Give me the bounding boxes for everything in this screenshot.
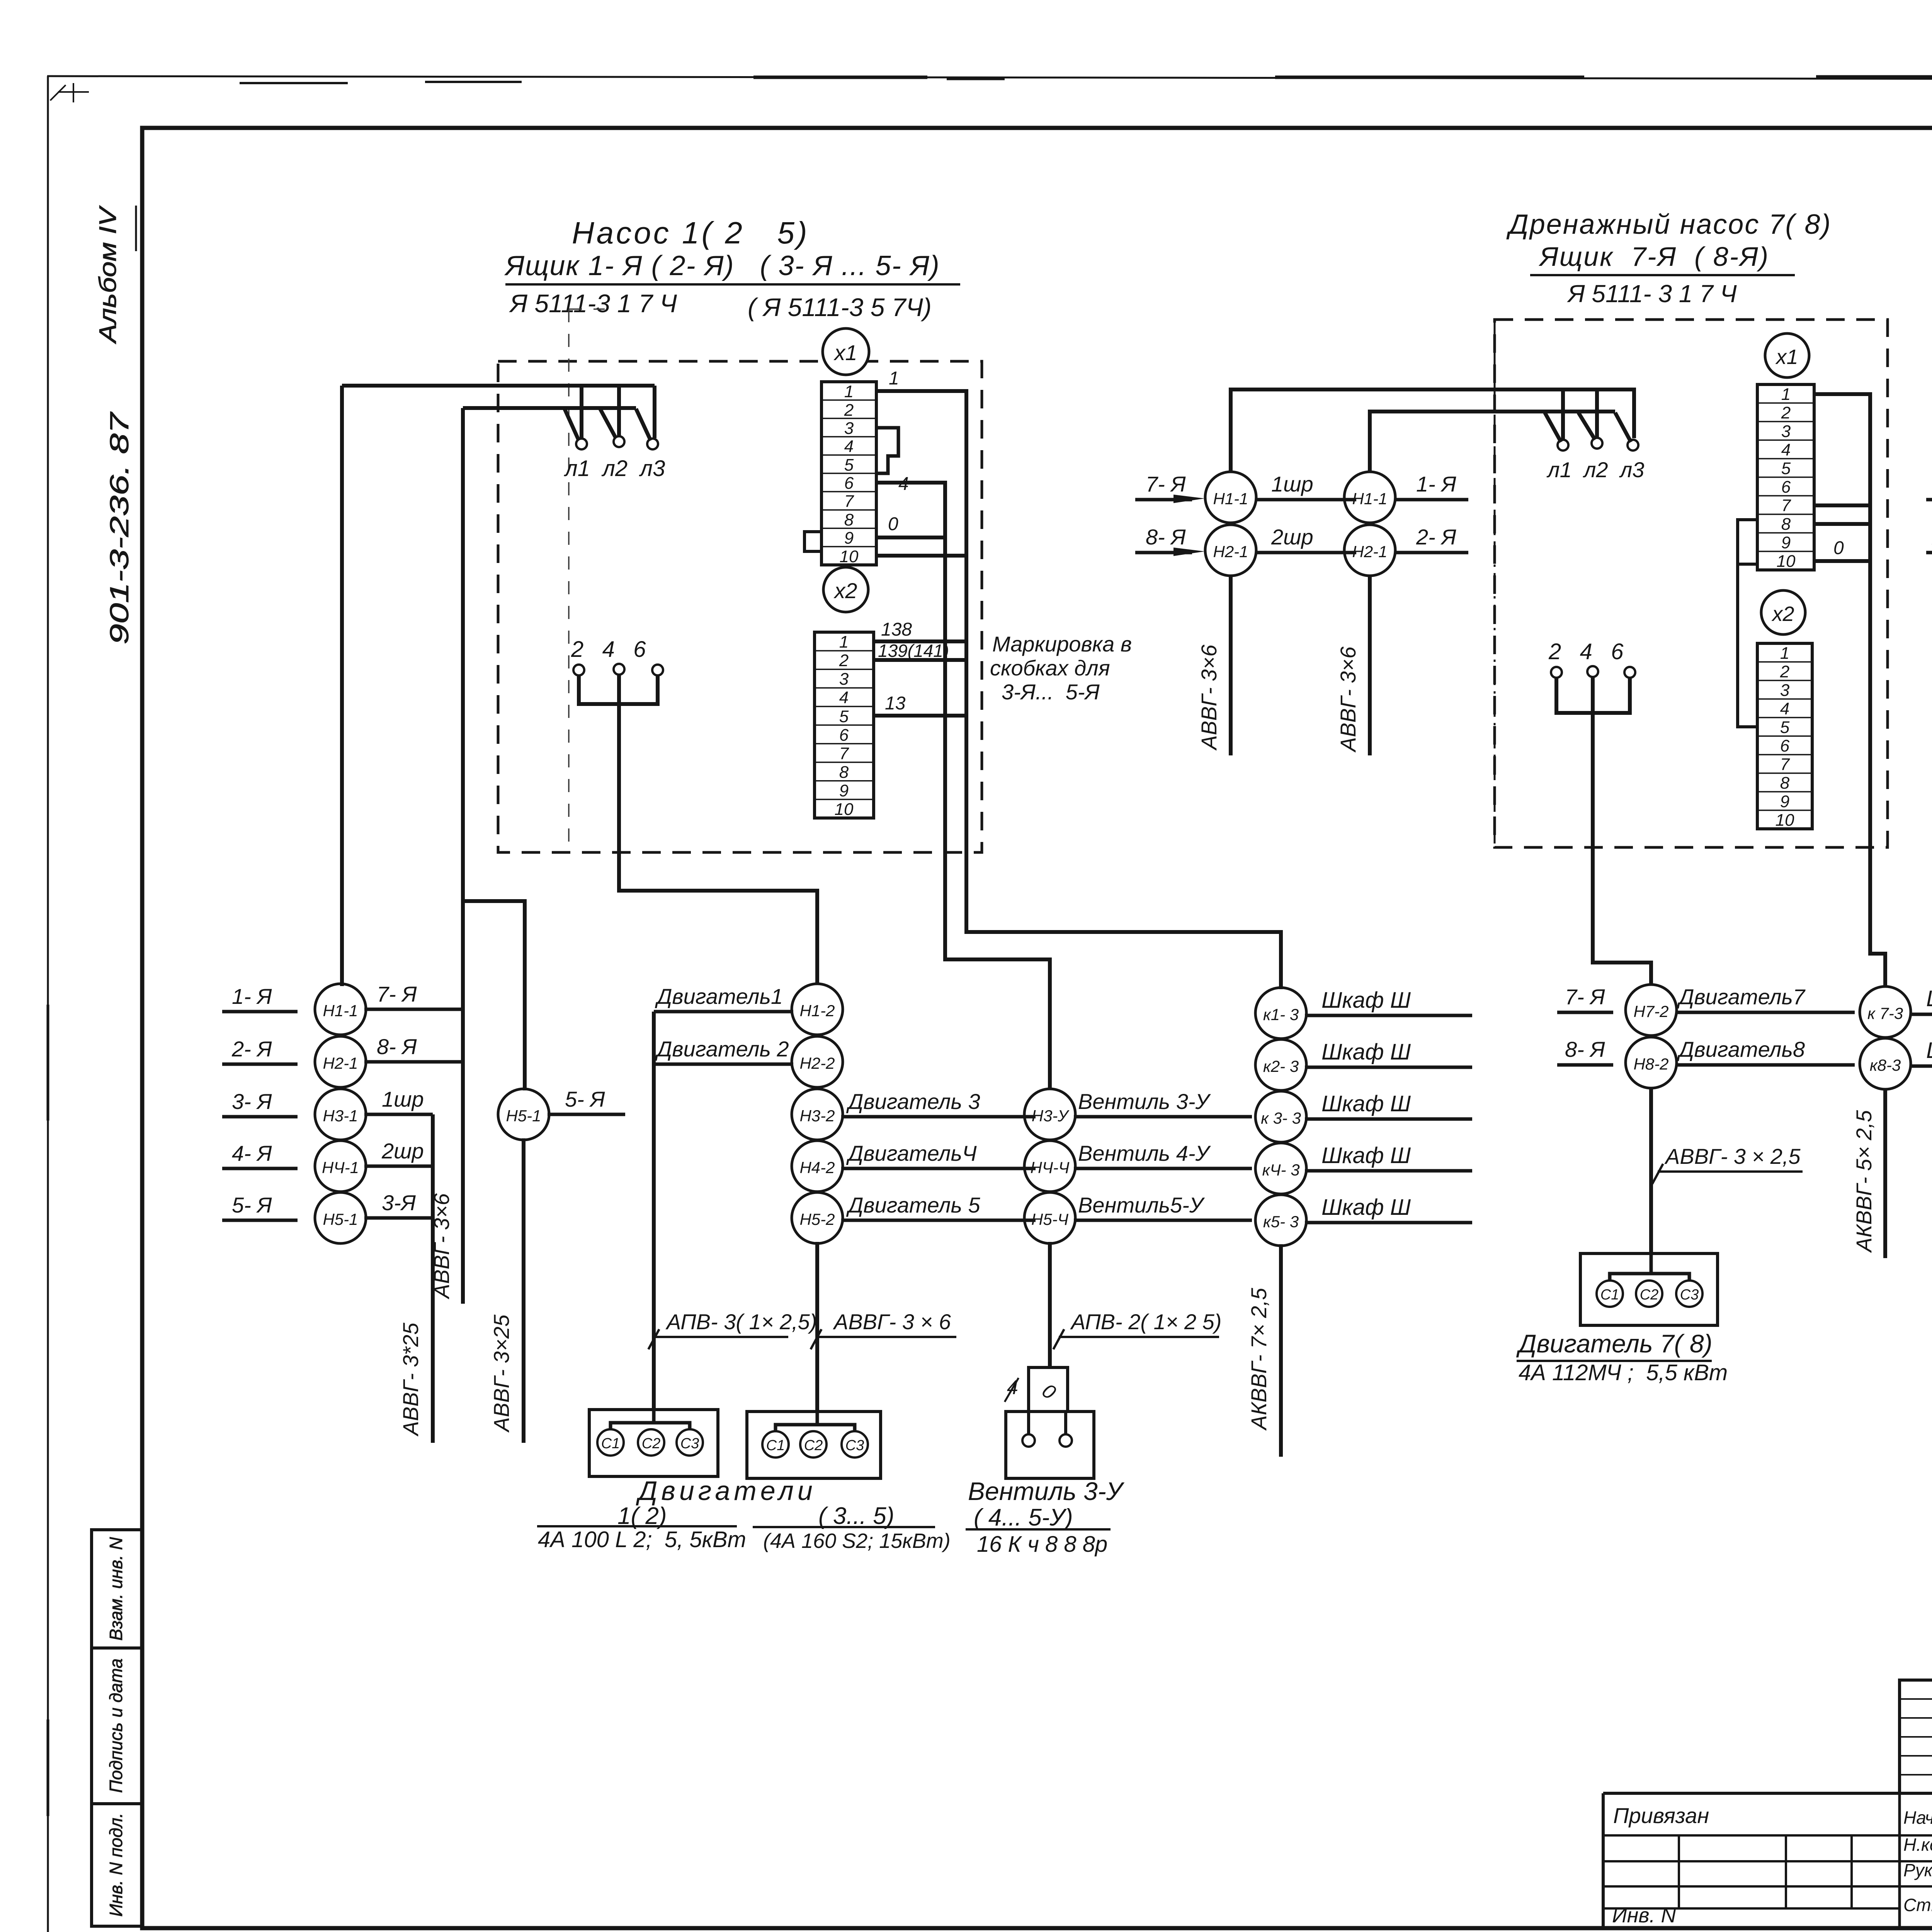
wire Двигатель 2 — [654, 1063, 793, 1066]
svg-text:Привязан: Привязан — [1613, 1803, 1709, 1828]
svg-text:Двигатель8: Двигатель8 — [1677, 1037, 1805, 1061]
svg-text:С3: С3 — [680, 1435, 699, 1452]
motor1 terminal С1 — [597, 1429, 624, 1456]
motor1 terminal С3 — [677, 1429, 703, 1456]
svg-text:x2: x2 — [833, 578, 857, 603]
svg-text:7: 7 — [1780, 755, 1790, 774]
svg-text:Альбом IV: Альбом IV — [95, 205, 121, 344]
svg-text:Дренажный насос 7( 8): Дренажный насос 7( 8) — [1506, 209, 1832, 240]
svg-text:Н5-1: Н5-1 — [506, 1107, 541, 1125]
svg-text:7- Я: 7- Я — [1565, 985, 1605, 1009]
terminal 6 — [652, 665, 663, 675]
svg-text:(4А 160 S2; 15кВт): (4А 160 S2; 15кВт) — [763, 1529, 951, 1553]
cable run АВВГ-3x6 below second Н2-1 — [1368, 575, 1372, 755]
motor1 terminal С2 — [638, 1429, 664, 1456]
svg-text:8- Я: 8- Я — [1146, 525, 1186, 549]
terminal block X2 — [1757, 643, 1812, 829]
wire motor7 drop — [1649, 1087, 1653, 1253]
marker Н5-2 — [792, 1192, 843, 1243]
terminal block X2 circle label — [1761, 590, 1805, 634]
bus wire 1 (top feed) — [342, 384, 655, 388]
svg-text:8: 8 — [839, 763, 849, 782]
svg-text:Н3-У: Н3-У — [1032, 1107, 1070, 1125]
svg-text:0: 0 — [888, 514, 898, 534]
wire Н2-1 right 8-Я — [364, 1060, 463, 1064]
stub 4-Я — [222, 1167, 298, 1170]
svg-text:2шр: 2шр — [381, 1139, 424, 1163]
diagonal feed L3 — [636, 409, 651, 440]
wire X1 row6 out — [876, 483, 1050, 1090]
marker к7-3 — [1860, 986, 1911, 1037]
svg-text:АПВ- 2( 1× 2 5): АПВ- 2( 1× 2 5) — [1070, 1310, 1221, 1334]
svg-text:АВВГ- 3 × 6: АВВГ- 3 × 6 — [833, 1310, 951, 1334]
bus wire 1 to л terminals — [1231, 389, 1634, 473]
lower-left grid — [1603, 1835, 1900, 1908]
svg-text:НЧ-Ч: НЧ-Ч — [1031, 1158, 1070, 1177]
wire 1-Я — [1395, 498, 1468, 502]
svg-text:1: 1 — [844, 382, 854, 401]
svg-text:2: 2 — [1781, 403, 1791, 422]
stub 3-Я — [222, 1115, 298, 1119]
svg-text:4: 4 — [1780, 699, 1789, 718]
svg-text:Шкаф Ш: Шкаф Ш — [1926, 1038, 1932, 1063]
wire Шкаф Ш k2 — [1305, 1066, 1472, 1069]
svg-text:Н3-1: Н3-1 — [323, 1107, 358, 1125]
svg-text:0: 0 — [1833, 538, 1844, 558]
svg-text:Ящик 7-Я ( 8-Я): Ящик 7-Я ( 8-Я) — [1538, 241, 1769, 272]
wire 2шр — [1255, 551, 1356, 554]
svg-text:Н1-1: Н1-1 — [1352, 490, 1387, 508]
svg-text:4: 4 — [844, 437, 854, 456]
diagonal feed L3 — [1615, 413, 1631, 442]
svg-text:5: 5 — [1780, 718, 1790, 737]
svg-text:к 3- 3: к 3- 3 — [1261, 1109, 1301, 1127]
marker Н2-1 — [315, 1036, 366, 1087]
wire Шкаф Ш k4 — [1305, 1169, 1472, 1173]
stub 7-Я with arrow — [1135, 498, 1192, 502]
marker Н3-1 — [315, 1089, 366, 1140]
svg-text:Двигатель1: Двигатель1 — [655, 984, 783, 1009]
motor2 link bracket — [776, 1412, 855, 1431]
svg-text:к1- 3: к1- 3 — [1263, 1005, 1299, 1024]
terminal л1 — [576, 439, 587, 449]
marker Н4-2 — [792, 1141, 843, 1192]
diagonal feed L1 — [565, 409, 579, 440]
marker Н2-2 — [792, 1036, 843, 1087]
X1 left clamp rows 8-10 — [1738, 520, 1757, 564]
svg-text:Шкаф Ш: Шкаф Ш — [1321, 988, 1411, 1013]
wire X1 row1 out — [876, 391, 1281, 989]
svg-text:Н1-2: Н1-2 — [799, 1002, 835, 1020]
svg-text:Инв. N: Инв. N — [1612, 1904, 1677, 1927]
marker к5-3 — [1255, 1195, 1306, 1246]
wire X1 row10 out — [1814, 559, 1870, 563]
svg-text:1- Я: 1- Я — [1416, 472, 1456, 496]
svg-text:( 4... 5-У): ( 4... 5-У) — [974, 1504, 1073, 1531]
svg-text:к8-3: к8-3 — [1870, 1056, 1901, 1074]
svg-text:С3: С3 — [845, 1437, 864, 1454]
wire Двигатель7 — [1676, 1011, 1855, 1014]
svg-text:Двигатель 5: Двигатель 5 — [846, 1193, 980, 1217]
svg-text:139(141): 139(141) — [878, 641, 949, 661]
svg-text:2- Я: 2- Я — [231, 1037, 272, 1061]
svg-text:7: 7 — [839, 744, 849, 763]
svg-text:( Я 5111-3 5 7Ч): ( Я 5111-3 5 7Ч) — [748, 293, 932, 321]
svg-text:Н4-2: Н4-2 — [799, 1158, 835, 1177]
wire Вентиль 5-У — [1074, 1219, 1252, 1222]
svg-text:С3: С3 — [1680, 1287, 1699, 1303]
motor7 terminal С2 — [1636, 1281, 1662, 1307]
svg-text:13: 13 — [885, 693, 906, 714]
stamp box: Подпись и дата — [92, 1648, 142, 1804]
svg-text:x2: x2 — [1771, 602, 1794, 626]
svg-text:8- Я: 8- Я — [377, 1034, 417, 1059]
stamp box: Взам. инв. N — [92, 1530, 142, 1648]
motor7 terminal С1 — [1597, 1281, 1623, 1307]
wire X2 row1 out — [874, 639, 966, 643]
svg-text:10: 10 — [1777, 552, 1796, 571]
marker к3-3 — [1255, 1091, 1306, 1142]
svg-text:1: 1 — [1781, 385, 1791, 404]
revision grid (upper-left of title block) — [1900, 1680, 1932, 1793]
wire Н5-1 right 3-Я — [364, 1216, 433, 1220]
svg-text:Ящик 1- Я ( 2- Я) ( 3- Я ...: Ящик 1- Я ( 2- Я) ( 3- Я ... 5- Я) — [504, 250, 940, 281]
valve contact left — [1022, 1434, 1035, 1447]
svg-text:2- Я: 2- Я — [1416, 525, 1456, 549]
svg-text:7- Я: 7- Я — [377, 982, 417, 1006]
svg-text:С2: С2 — [642, 1435, 661, 1452]
svg-text:4А 100 L 2; 5, 5кВт: 4А 100 L 2; 5, 5кВт — [538, 1527, 746, 1552]
svg-text:x1: x1 — [1775, 345, 1798, 369]
svg-text:1: 1 — [889, 368, 899, 389]
stub 8-Я with arrow — [1135, 551, 1192, 554]
marker Н5-1 (box 5-Я feed) — [498, 1089, 549, 1140]
svg-text:4А 112МЧ ; 5,5 кВт: 4А 112МЧ ; 5,5 кВт — [1519, 1360, 1728, 1385]
svg-text:Я 5111-3 1 7 Ч: Я 5111-3 1 7 Ч — [509, 289, 677, 318]
wire drop L3 (corner) — [653, 386, 656, 438]
svg-text:АВВГ- 3 × 2,5: АВВГ- 3 × 2,5 — [1664, 1144, 1801, 1168]
signature table columns — [1900, 1793, 1932, 1929]
terminal 2 — [573, 665, 584, 675]
svg-text:АВВГ- 3×25: АВВГ- 3×25 — [489, 1314, 514, 1433]
wire 4 to Н7-2 — [1593, 713, 1651, 985]
svg-text:4: 4 — [839, 688, 849, 707]
svg-text:4: 4 — [898, 474, 909, 494]
wire drop L2 — [1595, 389, 1599, 437]
svg-text:138: 138 — [881, 619, 912, 640]
svg-text:АВВГ- 3*25: АВВГ- 3*25 — [398, 1322, 423, 1437]
terminal л3 — [1628, 440, 1638, 451]
marker к2-3 — [1255, 1039, 1306, 1090]
svg-text:Вентиль 3-У: Вентиль 3-У — [1078, 1089, 1211, 1114]
svg-text:Вентиль5-У: Вентиль5-У — [1078, 1193, 1205, 1217]
svg-text:8- Я: 8- Я — [1565, 1037, 1605, 1061]
wire clamp to X2 row5 — [1738, 564, 1757, 727]
marker к1-3 — [1255, 988, 1306, 1039]
svg-text:Н5-Ч: Н5-Ч — [1031, 1210, 1069, 1228]
svg-text:Шкаф Ш: Шкаф Ш — [1321, 1091, 1411, 1116]
svg-text:Ст.инж.: Ст.инж. — [1903, 1895, 1932, 1915]
marker Н5-1 — [315, 1192, 366, 1243]
marker Н3-У — [1024, 1089, 1075, 1140]
svg-text:( 3... 5): ( 3... 5) — [818, 1503, 894, 1529]
outer border top — [47, 76, 1932, 80]
stamp box: Инв. N подл. — [92, 1804, 142, 1926]
svg-text:Вентиль 4-У: Вентиль 4-У — [1078, 1141, 1211, 1165]
wire Н1-1 right 7-Я — [364, 1008, 463, 1011]
svg-text:АВВГ- 3×6: АВВГ- 3×6 — [429, 1193, 454, 1299]
connector U 2-4-6 — [1556, 677, 1630, 713]
wire Двигатель 5 — [841, 1219, 1036, 1222]
svg-text:Н2-1: Н2-1 — [323, 1054, 358, 1072]
terminal block X1 circle label — [1765, 333, 1809, 378]
marker Н7-2 — [1626, 985, 1677, 1036]
wire jog to Н5-1 — [463, 901, 525, 1090]
wire drop L1 — [580, 386, 583, 438]
svg-text:Я 5111- 3 1 7 Ч: Я 5111- 3 1 7 Ч — [1567, 280, 1737, 308]
motor1 link bracket — [611, 1410, 690, 1429]
svg-text:к 7-3: к 7-3 — [1867, 1004, 1903, 1022]
terminal л1 — [1558, 440, 1568, 451]
marker Н1-1 (cable 1шр) — [1205, 472, 1256, 523]
svg-text:9: 9 — [839, 781, 849, 800]
svg-text:АПВ- 3( 1× 2,5): АПВ- 3( 1× 2,5) — [665, 1310, 817, 1334]
wire Вентиль 4-У — [1074, 1167, 1252, 1170]
svg-text:Н5-1: Н5-1 — [323, 1210, 358, 1228]
wire valve drop — [1048, 1242, 1052, 1367]
svg-text:3- Я: 3- Я — [232, 1089, 272, 1114]
terminal 6 — [1624, 667, 1635, 678]
svg-text:1- Я: 1- Я — [232, 984, 272, 1009]
svg-text:С1: С1 — [1600, 1287, 1619, 1303]
svg-text:1: 1 — [839, 633, 849, 651]
wire Шкаф Ш k5 — [1305, 1221, 1472, 1225]
stub 1-Я — [222, 1010, 298, 1014]
svg-text:6: 6 — [1781, 478, 1791, 497]
wire 2-Я — [1395, 551, 1468, 554]
svg-text:7- Я: 7- Я — [1146, 472, 1186, 496]
svg-text:Н5-2: Н5-2 — [799, 1210, 835, 1228]
svg-text:Шкаф Ш: Шкаф Ш — [1321, 1039, 1411, 1065]
wire Шкаф Ш k3 — [1305, 1117, 1472, 1121]
svg-text:16 К ч 8 8 8р: 16 К ч 8 8 8р — [977, 1532, 1107, 1557]
wire X1 row10 out — [876, 554, 966, 558]
svg-text:Н1-1: Н1-1 — [323, 1002, 358, 1020]
svg-text:901-3-236. 87: 901-3-236. 87 — [105, 412, 134, 645]
terminal block X1 — [1757, 384, 1814, 570]
motor box 7 — [1580, 1253, 1718, 1325]
marker Н4-У — [1024, 1141, 1075, 1192]
wire Двигатель 4 — [841, 1167, 1036, 1170]
svg-text:Шкаф Ш: Шкаф Ш — [1321, 1195, 1411, 1220]
motor2 terminal С1 — [762, 1431, 789, 1458]
svg-text:Н3-2: Н3-2 — [799, 1107, 835, 1125]
svg-text:Вентиль 3-У: Вентиль 3-У — [968, 1477, 1125, 1505]
border smudges — [753, 77, 1932, 78]
svg-text:8: 8 — [1781, 515, 1791, 534]
cable run АВВГ-3x6 below Н2-1 — [1229, 575, 1233, 755]
svg-text:10: 10 — [835, 800, 854, 819]
stub 5-Я — [222, 1219, 298, 1222]
svg-text:С2: С2 — [1640, 1287, 1659, 1303]
marker Н5-У — [1024, 1192, 1075, 1243]
marker Н2-1 (cable 2шр) — [1205, 525, 1256, 576]
svg-text:10: 10 — [1776, 811, 1794, 830]
svg-text:к5- 3: к5- 3 — [1263, 1213, 1299, 1231]
svg-text:Инв. N подл.: Инв. N подл. — [106, 1813, 126, 1917]
svg-text:Двигатель7: Двигатель7 — [1677, 985, 1806, 1009]
terminal л2 — [1592, 438, 1602, 449]
svg-text:8: 8 — [844, 510, 854, 529]
wire Н5-1 right 5-Я — [548, 1113, 625, 1116]
svg-text:5: 5 — [839, 707, 849, 726]
svg-text:Двигатель 3: Двигатель 3 — [846, 1089, 980, 1114]
X1 rows3-5 jumper bracket — [876, 428, 898, 473]
wire drop L2 — [617, 386, 621, 436]
svg-text:Подпись и дата: Подпись и дата — [106, 1658, 126, 1793]
svg-text:5- Я: 5- Я — [232, 1193, 272, 1217]
svg-text:Нач. отд.: Нач. отд. — [1903, 1808, 1932, 1828]
svg-text:Шкаф Ш: Шкаф Ш — [1926, 986, 1932, 1011]
svg-text:9: 9 — [1780, 792, 1789, 811]
diagonal feed L2 — [600, 409, 616, 438]
svg-text:6: 6 — [839, 726, 849, 745]
connector U 2-4-6 — [579, 675, 658, 704]
wire Двигатель 3 — [841, 1115, 1036, 1119]
svg-text:10: 10 — [840, 547, 859, 566]
motor box 2 — [747, 1412, 881, 1478]
terminal 4 — [614, 664, 624, 675]
svg-text:Рук. бр: Рук. бр — [1903, 1860, 1932, 1880]
wire 1шр — [1255, 498, 1356, 502]
wire Вентиль 3-У — [1074, 1115, 1252, 1119]
svg-text:7: 7 — [844, 492, 854, 511]
marker Н3-2 — [792, 1089, 843, 1140]
bus wire 2 (second feed) — [463, 406, 636, 410]
svg-text:6: 6 — [1780, 736, 1790, 755]
underline — [1530, 274, 1795, 276]
svg-text:к2- 3: к2- 3 — [1263, 1057, 1299, 1075]
svg-text:3: 3 — [1780, 681, 1790, 700]
stub 12-Я with arrow — [1926, 498, 1932, 502]
svg-text:2 4 6: 2 4 6 — [571, 637, 646, 662]
svg-text:2: 2 — [1780, 662, 1789, 681]
wire Шкаф Ш k8 — [1911, 1065, 1932, 1068]
svg-text:С2: С2 — [804, 1437, 823, 1454]
dashed enclosure box ящик 7-Я — [1495, 320, 1888, 847]
wire Двигатель8 — [1676, 1063, 1855, 1067]
svg-text:АВВГ- 3×6: АВВГ- 3×6 — [1336, 646, 1360, 753]
svg-text:9: 9 — [844, 529, 854, 548]
svg-text:9: 9 — [1781, 533, 1791, 552]
wire 4 to motor column — [619, 704, 817, 985]
svg-text:Н7-2: Н7-2 — [1633, 1002, 1668, 1020]
svg-text:Шкаф Ш: Шкаф Ш — [1321, 1143, 1411, 1168]
wire Шкаф Ш k1 — [1305, 1014, 1472, 1017]
marker Н8-2 — [1626, 1037, 1677, 1088]
wire X1 row8 out — [1814, 522, 1870, 526]
svg-text:8: 8 — [1780, 774, 1790, 793]
outer border left — [47, 76, 49, 1932]
svg-text:Маркировка в: Маркировка в — [992, 632, 1132, 656]
svg-text:1шр: 1шр — [382, 1087, 424, 1111]
wire X1 row7 out — [1814, 503, 1870, 507]
cable run АВВГ-3x25 (right) — [522, 1138, 526, 1443]
valve contact right — [1060, 1434, 1072, 1447]
svg-text:Н8-2: Н8-2 — [1633, 1055, 1668, 1073]
stub 8-Я — [1557, 1063, 1613, 1067]
svg-text:кЧ- 3: кЧ- 3 — [1262, 1161, 1299, 1179]
wire Двигатель1 — [654, 1010, 793, 1014]
svg-text:7: 7 — [1781, 496, 1791, 515]
svg-text:Н2-2: Н2-2 — [799, 1054, 835, 1072]
svg-text:Н1-1: Н1-1 — [1213, 490, 1248, 508]
underline — [505, 283, 960, 286]
marker Н1-1 — [315, 984, 366, 1035]
stub 2-Я — [222, 1063, 298, 1066]
svg-text:С1: С1 — [766, 1437, 785, 1454]
bus wire 2 to л terminals — [1370, 412, 1615, 473]
svg-text:5- Я: 5- Я — [565, 1087, 605, 1111]
terminal block X2 — [815, 632, 874, 818]
terminal block X2 circle label — [823, 567, 868, 612]
terminal 4 — [1587, 666, 1598, 677]
wire X2 row2 out — [874, 658, 966, 662]
stub 22-Я with arrow — [1926, 551, 1932, 554]
cable run АКВВГ-5x2,5 — [1883, 1089, 1887, 1258]
svg-text:3: 3 — [839, 670, 849, 689]
motor2 terminal С2 — [800, 1431, 827, 1458]
wire Н4-1 right 2шр — [364, 1165, 433, 1168]
svg-text:Двигатель 2: Двигатель 2 — [655, 1037, 789, 1061]
svg-text:ДвигательЧ: ДвигательЧ — [846, 1141, 977, 1165]
terminal block X1 — [821, 382, 876, 565]
motor7 terminal С3 — [1676, 1281, 1702, 1307]
svg-text:Двигатели: Двигатели — [636, 1476, 816, 1506]
svg-text:АВВГ- 3×6: АВВГ- 3×6 — [1197, 644, 1221, 751]
svg-text:Взам. инв. N: Взам. инв. N — [106, 1537, 126, 1641]
svg-text:4: 4 — [1781, 440, 1791, 459]
svg-text:1: 1 — [1780, 644, 1789, 663]
svg-text:2 4 6: 2 4 6 — [1548, 639, 1624, 664]
wire X2 row5 out — [874, 714, 966, 718]
motor2 terminal С3 — [842, 1431, 868, 1458]
marker к8-3 — [1860, 1038, 1911, 1089]
valve coil box — [1029, 1367, 1068, 1412]
svg-text:Двигатель 7( 8): Двигатель 7( 8) — [1516, 1329, 1713, 1358]
svg-text:2: 2 — [839, 651, 849, 670]
terminal л2 — [614, 436, 624, 447]
wire X1 row9 out — [876, 536, 945, 539]
wire Н3-1 right 1шр — [364, 1113, 433, 1116]
dashed enclosure box ящик 1-Я — [498, 361, 982, 852]
corner mark top-left — [50, 83, 89, 102]
svg-text:3: 3 — [1781, 422, 1791, 441]
terminal block X1 circle label — [823, 328, 869, 375]
svg-text:л1 л2 л3: л1 л2 л3 — [1546, 457, 1644, 482]
wire drop L1 — [1561, 389, 1565, 440]
wire X1 row1 out — [1814, 394, 1885, 986]
wire bus2 drop / cable АВВГ-3x6 run — [461, 408, 465, 1304]
marker Н1-2 — [792, 984, 843, 1035]
wire motor2 drop — [815, 1242, 819, 1412]
svg-text:5: 5 — [1781, 459, 1791, 478]
svg-text:Н2-1: Н2-1 — [1213, 543, 1248, 561]
marker к4-3 — [1255, 1143, 1306, 1194]
X1 left clamp rows 9-10 — [804, 532, 821, 551]
svg-text:АКВВГ- 5× 2,5: АКВВГ- 5× 2,5 — [1852, 1110, 1876, 1253]
svg-text:Н2-1: Н2-1 — [1352, 543, 1387, 561]
